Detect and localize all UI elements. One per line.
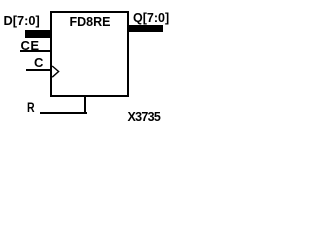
clock input wedge (triangle) xyxy=(51,63,61,79)
pin label CE xyxy=(21,39,40,52)
wire: CE input xyxy=(20,50,52,52)
wire: R input vertical segment into box bottom xyxy=(84,96,86,114)
wire: C clock input xyxy=(26,69,52,71)
pin label C xyxy=(34,56,43,69)
pin label R xyxy=(27,101,35,115)
label X3735 (figure number) xyxy=(128,111,161,124)
pin label D[7:0] xyxy=(4,15,40,28)
wire: R input horizontal segment xyxy=(40,112,87,114)
label FD8RE (component type name) xyxy=(70,16,111,29)
pin label Q[7:0] xyxy=(133,12,169,25)
wire: D[7:0] input bus (thick) xyxy=(25,30,52,38)
flip-flop U1: FD8RE symbol body box xyxy=(50,11,129,97)
wire: Q[7:0] output bus (thick) xyxy=(129,25,164,32)
